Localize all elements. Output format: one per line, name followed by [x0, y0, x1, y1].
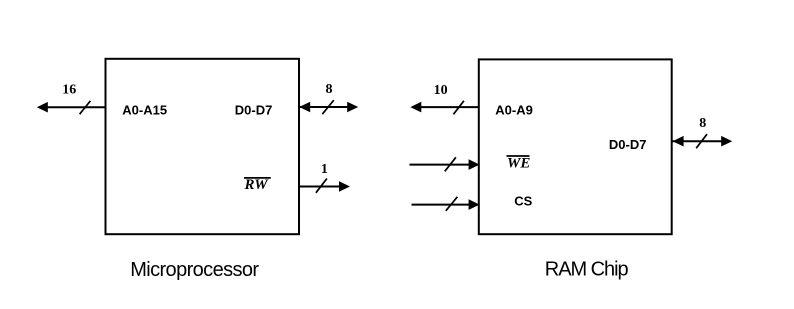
- svg-text:WE: WE: [507, 156, 530, 172]
- pin label RW (active-low, overbar): [244, 177, 271, 193]
- svg-text:A0-A9: A0-A9: [495, 102, 533, 117]
- label Microprocessor: [130, 259, 259, 281]
- value label 16: [62, 83, 76, 98]
- arrowhead: RAM address bus left: [410, 102, 421, 113]
- bus-width slash: WE line: [445, 157, 456, 171]
- pin label D0-D7 (RAM): [609, 137, 647, 152]
- wire: 10-bit address bus into RAM (left): [418, 106, 479, 108]
- bus-width slash: address bus 16: [80, 101, 91, 114]
- svg-text:Microprocessor: Microprocessor: [130, 259, 259, 281]
- bus-width slash: data bus 8: [322, 100, 334, 114]
- wire: 8-bit data bus of RAM (right, bidirectional): [672, 140, 724, 142]
- svg-text:CS: CS: [514, 194, 532, 209]
- bus-width slash: RAM address bus 10: [453, 101, 464, 115]
- label RAM Chip: [545, 259, 629, 281]
- pin label CS: [514, 194, 532, 209]
- pin label D0-D7 (microprocessor): [235, 103, 273, 118]
- svg-text:8: 8: [699, 116, 706, 131]
- svg-text:RAM Chip: RAM Chip: [545, 259, 629, 281]
- svg-text:1: 1: [321, 162, 328, 177]
- arrowhead: RAM data bus right end: [721, 136, 732, 147]
- svg-text:D0-D7: D0-D7: [609, 137, 647, 152]
- bus-width slash: RAM data bus 8: [696, 134, 707, 148]
- arrowhead: CS input right: [469, 199, 480, 210]
- arrowhead: data bus right end: [347, 102, 358, 113]
- svg-text:D0-D7: D0-D7: [235, 103, 273, 118]
- arrowhead: RAM data bus left end: [673, 136, 684, 147]
- svg-text:A0-A15: A0-A15: [122, 103, 167, 118]
- arrowhead: WE input right: [469, 159, 480, 170]
- bus-width slash: RW line 1: [316, 179, 327, 193]
- microprocessor U1 box: [106, 59, 300, 234]
- wire: CS control input to RAM: [412, 204, 473, 206]
- svg-text:8: 8: [326, 82, 333, 97]
- svg-text:10: 10: [434, 83, 448, 98]
- RAM chip U2 box: [479, 59, 672, 234]
- arrowhead: address bus left: [37, 102, 48, 113]
- value label 8 (microprocessor data bus): [326, 82, 333, 97]
- svg-text:RW: RW: [244, 177, 270, 193]
- wire: WE control input to RAM: [410, 164, 473, 166]
- arrowhead: data bus left end: [299, 102, 310, 113]
- svg-text:16: 16: [62, 83, 76, 98]
- pin label A0-A15: [122, 103, 167, 118]
- value label 10: [434, 83, 448, 98]
- arrowhead: RW line right: [339, 181, 350, 192]
- value label 8 (RAM data bus): [699, 116, 706, 131]
- wire: RW control line out of U1: [298, 186, 342, 188]
- pin label WE (active-low, overbar): [507, 156, 531, 172]
- wire: 16-bit address bus out of U1 (left): [45, 106, 106, 108]
- value label 1: [321, 162, 328, 177]
- bus-width slash: CS line: [446, 197, 458, 211]
- pin label A0-A9: [495, 102, 533, 117]
- wire: 8-bit data bus of U1 (right, bidirectional): [299, 106, 350, 108]
